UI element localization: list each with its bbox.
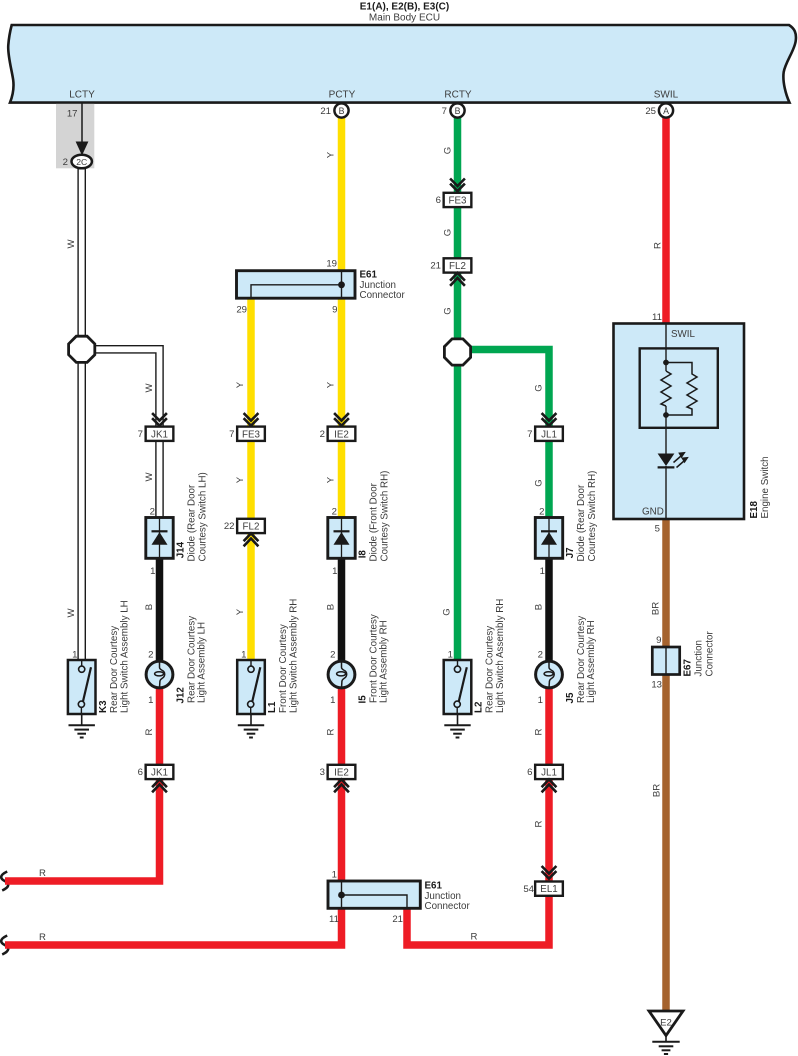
pin 7 circle B at RCTY <box>450 103 464 117</box>
svg-text:Courtesy Switch LH): Courtesy Switch LH) <box>198 472 209 561</box>
arrow LCTY pin17 into connector 2C <box>81 104 83 145</box>
splice octagon white wire <box>69 336 95 362</box>
svg-text:21: 21 <box>430 261 441 272</box>
svg-text:1: 1 <box>448 650 453 661</box>
svg-text:2: 2 <box>150 507 155 518</box>
wire green FL2 to splice to L2 pin1 <box>454 271 462 662</box>
svg-text:Light Switch Assembly LH: Light Switch Assembly LH <box>120 600 131 713</box>
svg-text:2: 2 <box>332 507 337 518</box>
svg-text:Y: Y <box>235 381 246 388</box>
svg-text:7: 7 <box>442 106 447 117</box>
svg-text:B: B <box>339 106 345 116</box>
svg-text:B: B <box>533 604 544 610</box>
wire red bus lower E61 pin21 to EL1 pin54 <box>407 896 549 945</box>
svg-text:LCTY: LCTY <box>69 90 95 101</box>
svg-text:RCTY: RCTY <box>444 90 472 101</box>
svg-text:Diode (Rear Door: Diode (Rear Door <box>576 484 587 562</box>
svg-text:E18: E18 <box>749 501 760 519</box>
svg-text:6: 6 <box>138 767 143 778</box>
resistor left in E18 <box>661 371 671 406</box>
svg-text:Rear Door Courtesy: Rear Door Courtesy <box>109 626 120 713</box>
svg-text:FL2: FL2 <box>449 261 466 272</box>
svg-text:1: 1 <box>148 695 153 706</box>
diode J14 (Rear Door Courtesy Switch LH) <box>146 518 173 559</box>
svg-text:R: R <box>533 728 544 735</box>
svg-text:1: 1 <box>538 695 543 706</box>
svg-text:G: G <box>442 229 453 236</box>
svg-text:1: 1 <box>330 695 335 706</box>
E18 rheostat inner box <box>640 348 718 427</box>
svg-text:PCTY: PCTY <box>329 90 356 101</box>
svg-text:BR: BR <box>651 784 662 797</box>
svg-text:E61: E61 <box>360 270 378 281</box>
lamp J5 Rear Door Courtesy Light Assembly RH <box>536 661 563 688</box>
svg-text:I8: I8 <box>358 550 369 559</box>
svg-text:L1: L1 <box>267 701 278 713</box>
svg-text:R: R <box>39 868 46 879</box>
switch L2 Rear Door Courtesy Light Switch Assembly RH <box>444 660 472 714</box>
svg-text:2: 2 <box>320 429 325 440</box>
wire red J5 pin1 to JL1 pin6 <box>545 679 553 766</box>
svg-text:1: 1 <box>241 650 246 661</box>
svg-text:JK1: JK1 <box>151 429 168 440</box>
svg-text:GND: GND <box>642 507 664 518</box>
wire red J12 pin1 to JK1 pin6 <box>156 679 164 766</box>
wire green FE3 to FL2 pin21 <box>454 206 462 261</box>
svg-text:IE2: IE2 <box>334 429 349 440</box>
svg-text:Junction: Junction <box>694 640 705 677</box>
connector IE2 pin3 on red <box>328 765 356 779</box>
svg-text:JL1: JL1 <box>541 429 557 440</box>
diode I8 (Front Door Courtesy Switch RH) <box>328 518 355 559</box>
wire brown E67 pin13 to E2 ground <box>662 674 670 1012</box>
svg-text:Diode (Rear Door: Diode (Rear Door <box>187 484 198 562</box>
pin 21 circle B at PCTY <box>334 103 348 117</box>
junction connector E67 <box>652 647 679 675</box>
resistor right in E18 <box>666 363 697 416</box>
svg-text:Light Assembly LH: Light Assembly LH <box>197 622 208 703</box>
wire red I5 pin1 to IE2 pin3 <box>338 679 346 766</box>
svg-text:7: 7 <box>527 429 532 440</box>
svg-text:JK1: JK1 <box>151 767 168 778</box>
ground symbol E2 <box>652 1036 679 1055</box>
svg-text:R: R <box>39 932 46 943</box>
svg-text:13: 13 <box>651 680 662 691</box>
svg-text:Light Assembly RH: Light Assembly RH <box>379 620 390 703</box>
svg-text:9: 9 <box>332 305 337 316</box>
svg-text:R: R <box>144 728 155 735</box>
svg-text:Y: Y <box>325 476 336 483</box>
svg-text:54: 54 <box>523 884 534 895</box>
ground point E2 <box>649 1011 683 1036</box>
svg-text:J7: J7 <box>565 547 576 558</box>
lamp I5 Front Door Courtesy Light Assembly RH <box>328 661 355 688</box>
svg-text:W: W <box>144 383 155 393</box>
svg-text:JL1: JL1 <box>541 767 557 778</box>
svg-text:2C: 2C <box>76 157 87 167</box>
svg-text:G: G <box>441 608 452 615</box>
svg-text:R: R <box>471 932 478 943</box>
svg-text:1: 1 <box>332 870 337 881</box>
svg-text:J5: J5 <box>565 692 576 703</box>
svg-text:R: R <box>652 242 663 249</box>
connector FL2 pin21 on green <box>444 258 472 272</box>
connector JK1 pin6 on red <box>146 765 174 779</box>
switch K3 Rear Door Courtesy Light Switch Assembly LH <box>68 660 96 714</box>
lamp J12 Rear Door Courtesy Light Assembly LH <box>146 661 173 688</box>
svg-text:B: B <box>144 604 155 610</box>
svg-text:B: B <box>455 106 461 116</box>
svg-text:1: 1 <box>72 650 77 661</box>
LED in E18 <box>658 454 675 467</box>
wire black diode I8 pin1 to I5 pin2 <box>338 557 346 670</box>
svg-text:W: W <box>66 608 77 618</box>
connector 2C shield area <box>56 104 94 168</box>
svg-text:Connector: Connector <box>360 290 406 301</box>
connector JK1 pin7 on white <box>152 413 167 426</box>
svg-text:Y: Y <box>325 381 336 388</box>
svg-text:11: 11 <box>652 312 662 323</box>
svg-text:2: 2 <box>539 507 544 518</box>
wire red bus lower E61 pin11 to left break <box>5 908 342 946</box>
svg-text:B: B <box>325 604 336 610</box>
svg-text:1: 1 <box>332 566 337 577</box>
svg-text:J12: J12 <box>176 687 187 704</box>
wire green splice branch to JL1 pin7 <box>462 350 549 429</box>
svg-text:Y: Y <box>235 476 246 483</box>
wire yellow PCTY pin21 to E61 pin19 <box>338 117 346 272</box>
svg-text:G: G <box>442 147 453 154</box>
svg-text:R: R <box>533 820 544 827</box>
svg-text:11: 11 <box>329 914 339 925</box>
svg-text:Y: Y <box>325 151 336 158</box>
wire break symbol lower left <box>1 936 8 955</box>
svg-text:FL2: FL2 <box>243 521 260 532</box>
wire yellow IE2 to diode I8 pin2 <box>338 440 346 519</box>
svg-text:17: 17 <box>67 109 78 120</box>
svg-text:Light Switch Assembly RH: Light Switch Assembly RH <box>495 599 506 713</box>
wire red SWIL pin25 to E18 pin11 <box>662 117 670 325</box>
svg-text:Courtesy Switch RH): Courtesy Switch RH) <box>380 471 391 562</box>
wire yellow E61 pin29 to L1 pin1 <box>247 297 255 662</box>
svg-text:L2: L2 <box>474 701 485 713</box>
node dot top in E18 <box>663 360 669 366</box>
svg-text:3: 3 <box>320 767 325 778</box>
wire white 2C to splice to K3 pin1 <box>77 168 86 661</box>
wire yellow E61 pin9 to IE2 pin2 <box>338 297 346 429</box>
svg-text:2: 2 <box>330 650 335 661</box>
svg-text:Y: Y <box>235 608 246 615</box>
wire brown E18 pin5 to E67 pin9 <box>662 517 670 648</box>
svg-text:7: 7 <box>138 429 143 440</box>
svg-text:Diode (Front Door: Diode (Front Door <box>369 482 380 561</box>
svg-text:Light Switch Assembly RH: Light Switch Assembly RH <box>289 599 300 713</box>
svg-text:G: G <box>533 384 544 391</box>
wire break symbol upper left <box>1 872 8 891</box>
svg-text:K3: K3 <box>98 700 109 713</box>
svg-text:I5: I5 <box>358 695 369 704</box>
svg-text:W: W <box>144 472 155 482</box>
svg-text:1: 1 <box>150 566 155 577</box>
node dot bottom in E18 <box>663 412 669 418</box>
connector FL2 pin22 on yellow <box>237 519 265 533</box>
connector JL1 pin7 on green <box>542 413 557 426</box>
wire black diode J7 pin1 to J5 pin2 <box>545 557 553 670</box>
svg-text:29: 29 <box>236 305 247 316</box>
svg-text:Engine Switch: Engine Switch <box>760 456 771 518</box>
pin 25 circle A at SWIL <box>659 103 673 117</box>
svg-text:A: A <box>663 106 669 116</box>
wire white splice branch to JK1 pin7 <box>82 349 160 427</box>
svg-text:21: 21 <box>392 914 403 925</box>
svg-text:9: 9 <box>656 635 661 646</box>
svg-text:5: 5 <box>655 524 660 535</box>
svg-text:E67: E67 <box>683 659 694 677</box>
svg-text:SWIL: SWIL <box>671 329 696 340</box>
connector IE2 pin2 on yellow <box>334 413 349 426</box>
svg-text:6: 6 <box>527 767 532 778</box>
svg-text:Front Door Courtesy: Front Door Courtesy <box>278 624 289 713</box>
diode J7 (Rear Door Courtesy Switch RH) <box>535 518 562 559</box>
svg-text:G: G <box>533 479 544 486</box>
ECU band: Main Body ECU E1(A), E2(B), E3(C) <box>8 25 796 103</box>
wire green JL1 to diode J7 pin2 <box>545 441 553 520</box>
svg-text:E61: E61 <box>425 881 443 892</box>
svg-text:2: 2 <box>148 650 153 661</box>
svg-text:Connector: Connector <box>425 901 471 912</box>
wire red IE2 pin3 to E61 pin1 <box>338 779 346 883</box>
svg-text:Connector: Connector <box>705 631 716 677</box>
svg-text:G: G <box>442 307 453 314</box>
connector oval 2C <box>72 155 92 169</box>
connector EL1 pin54 on red <box>542 866 557 879</box>
svg-text:Light Assembly RH: Light Assembly RH <box>586 620 597 703</box>
svg-text:FE3: FE3 <box>449 195 468 206</box>
wire red bus upper JK1 to left break <box>5 779 160 882</box>
svg-text:2: 2 <box>63 157 68 168</box>
svg-text:E1(A), E2(B), E3(C): E1(A), E2(B), E3(C) <box>360 2 449 13</box>
splice octagon green wire <box>444 339 470 365</box>
svg-text:25: 25 <box>645 106 656 117</box>
svg-text:7: 7 <box>229 429 234 440</box>
connector JL1 pin6 on red <box>535 765 563 779</box>
junction connector E61 top <box>237 271 356 299</box>
svg-text:E2: E2 <box>660 1018 672 1029</box>
svg-text:19: 19 <box>326 259 337 270</box>
wire green RCTY pin7 to FE3 pin6 <box>454 117 462 195</box>
E18 internal wire <box>665 324 667 372</box>
svg-text:2: 2 <box>538 650 543 661</box>
svg-text:Rear Door Courtesy: Rear Door Courtesy <box>485 626 496 713</box>
svg-text:FE3: FE3 <box>242 429 261 440</box>
engine switch E18 box <box>614 324 745 520</box>
svg-text:21: 21 <box>320 106 331 117</box>
switch L1 Front Door Courtesy Light Switch Assembly RH <box>237 660 265 714</box>
junction connector E61 bottom <box>328 881 420 908</box>
wire black diode J14 pin1 to J12 pin2 <box>156 557 164 670</box>
wire red EL1 to JL1 pin6 <box>545 779 553 884</box>
svg-text:W: W <box>66 239 77 249</box>
connector FE3 pin7 on yellow <box>244 413 259 426</box>
svg-text:Courtesy Switch RH): Courtesy Switch RH) <box>587 471 598 562</box>
svg-text:SWIL: SWIL <box>654 90 679 101</box>
svg-text:22: 22 <box>224 521 235 532</box>
svg-text:6: 6 <box>436 195 441 206</box>
wire white JK1 pin7 to diode J14 pin2 <box>155 440 164 519</box>
svg-text:BR: BR <box>650 602 661 615</box>
svg-text:R: R <box>325 728 336 735</box>
svg-text:1: 1 <box>540 566 545 577</box>
svg-text:Main Body ECU: Main Body ECU <box>369 13 440 24</box>
svg-text:IE2: IE2 <box>334 767 349 778</box>
svg-text:J14: J14 <box>176 541 187 558</box>
connector FE3 pin6 on green <box>450 179 465 192</box>
svg-text:EL1: EL1 <box>540 884 557 895</box>
